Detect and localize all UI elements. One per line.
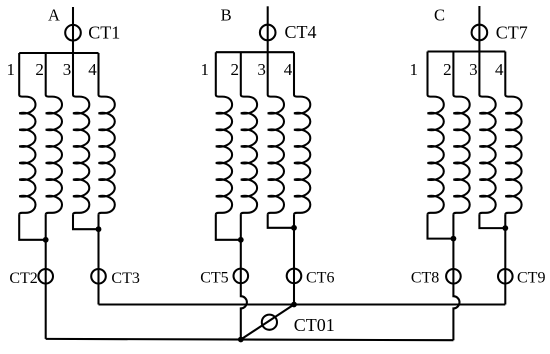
svg-text:CT01: CT01 — [294, 315, 335, 335]
junction dot pair A3-A4 — [96, 226, 102, 232]
current transformer CT7 — [472, 25, 488, 41]
svg-text:3: 3 — [63, 60, 72, 79]
wire C coil4 down through CT9 to upper bus corner — [504, 215, 506, 305]
winding coil A3 — [73, 53, 89, 215]
diagonal wire carrying CT01 — [241, 305, 294, 340]
upper return bus wire from CT3 to CT9 — [99, 303, 506, 305]
junction dot pair B3-B4 — [291, 225, 297, 231]
wire A coil4 down through CT3 to upper bus — [97, 215, 99, 305]
current transformer CT6 — [287, 269, 302, 284]
svg-text:1: 1 — [201, 60, 210, 79]
svg-text:CT9: CT9 — [517, 269, 545, 286]
svg-text:2: 2 — [231, 60, 240, 79]
phase C top bus wire — [428, 50, 506, 52]
winding coil C1 — [428, 52, 444, 215]
winding coil B1 — [216, 52, 232, 214]
svg-text:3: 3 — [257, 60, 266, 79]
winding coil B3 — [268, 52, 284, 214]
wire B coil4 down through CT6 to upper bus — [293, 215, 295, 305]
svg-text:CT7: CT7 — [496, 23, 528, 43]
wire A coil2 down through CT2 to lower bus — [45, 215, 47, 339]
winding coil C4 — [505, 52, 521, 215]
svg-text:B: B — [221, 6, 232, 25]
junction dot pair C1-C2 — [451, 236, 457, 242]
current transformer CT5 — [234, 269, 249, 284]
current transformer CT1 — [65, 25, 81, 41]
current transformer CT3 — [91, 269, 106, 284]
svg-text:4: 4 — [284, 60, 293, 79]
phase A top bus wire — [19, 52, 98, 54]
phase C supply wire — [478, 6, 480, 52]
svg-text:CT3: CT3 — [111, 270, 139, 287]
winding coil A2 — [46, 53, 62, 215]
svg-text:CT6: CT6 — [306, 270, 334, 287]
svg-text:CT4: CT4 — [285, 22, 317, 42]
phase B supply wire — [267, 6, 269, 52]
current transformer CT4 — [260, 25, 276, 41]
wire C coil2 down through CT8, hop over upper bus, to lower bus corner — [453, 215, 459, 341]
svg-text:1: 1 — [7, 60, 16, 79]
junction dot pair C3-C4 — [502, 225, 508, 231]
wire coil A3 bottom to pair junction — [73, 215, 99, 230]
svg-text:4: 4 — [88, 60, 97, 79]
svg-text:CT2: CT2 — [9, 270, 37, 287]
current transformer CT8 — [446, 269, 461, 284]
junction dot pair B1-B2 — [238, 237, 244, 243]
junction dot CT5 line on lower bus — [238, 337, 244, 343]
svg-text:4: 4 — [495, 60, 504, 79]
winding coil C3 — [479, 52, 495, 215]
wire coil B3 bottom to pair junction — [268, 215, 294, 228]
junction dot CT6 line on upper bus — [291, 302, 297, 308]
winding coil B4 — [294, 52, 310, 214]
wire coil C1 bottom to pair junction — [428, 215, 454, 239]
svg-text:C: C — [434, 6, 445, 25]
svg-text:3: 3 — [469, 60, 478, 79]
wire coil B1 bottom to pair junction — [216, 215, 241, 240]
wire B coil2 down through CT5, hop over upper bus, to lower bus — [241, 215, 247, 340]
current transformer CT2 — [38, 269, 53, 284]
svg-text:CT5: CT5 — [200, 270, 228, 287]
current transformer CT9 — [498, 269, 513, 284]
phase A supply wire — [72, 7, 74, 53]
svg-text:2: 2 — [443, 60, 452, 79]
svg-text:A: A — [48, 6, 60, 25]
winding coil A1 — [19, 53, 35, 215]
svg-text:CT1: CT1 — [88, 23, 120, 43]
winding coil C2 — [453, 52, 469, 215]
phase B top bus wire — [216, 51, 294, 53]
winding coil A4 — [99, 53, 115, 215]
wire coil C3 bottom to pair junction — [479, 215, 505, 229]
svg-text:CT8: CT8 — [411, 269, 439, 286]
current transformer CT01 — [262, 315, 277, 330]
svg-text:2: 2 — [35, 60, 44, 79]
junction dot pair A1-A2 — [43, 237, 49, 243]
lower return bus wire from CT2 to CT8 — [46, 339, 454, 340]
winding coil B2 — [241, 52, 257, 214]
wire coil A1 bottom to pair junction — [19, 215, 46, 240]
svg-text:1: 1 — [410, 60, 419, 79]
